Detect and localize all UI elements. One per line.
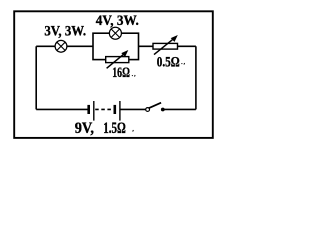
svg-text:4V, 3W.: 4V, 3W. — [96, 13, 139, 29]
svg-text:1.5Ω: 1.5Ω — [103, 120, 126, 137]
svg-text:16Ω: 16Ω — [112, 65, 130, 81]
svg-text:9V,: 9V, — [75, 120, 94, 137]
svg-text:,: , — [133, 128, 135, 133]
svg-text:. ,: . , — [132, 73, 137, 78]
svg-text:0.5Ω: 0.5Ω — [157, 54, 180, 70]
svg-text:3V, 3W.: 3V, 3W. — [44, 24, 86, 40]
svg-text:. ,: . , — [181, 61, 186, 66]
